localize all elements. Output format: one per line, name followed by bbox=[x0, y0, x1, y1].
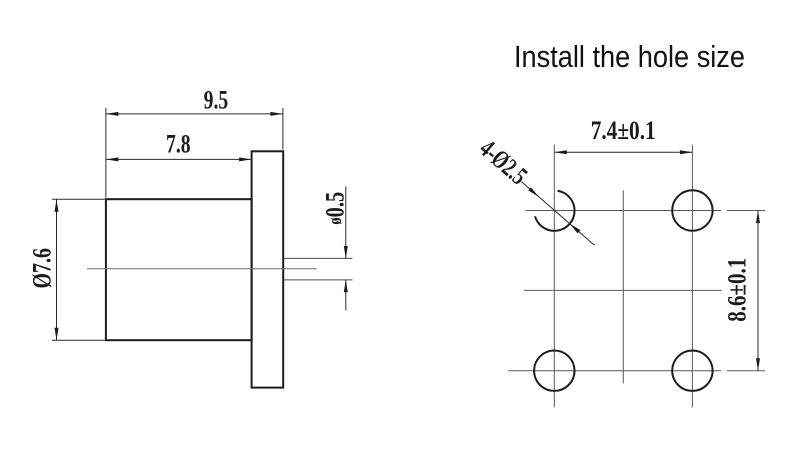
dimension 8.6 line bbox=[757, 211, 759, 371]
dimension pin diameter 0.5 lower line bbox=[345, 280, 347, 311]
top row center line end segment bbox=[727, 210, 765, 212]
dimension 9.5 left arrow bbox=[106, 112, 119, 116]
leader arrow at near hole edge bbox=[528, 187, 539, 197]
dimension 7.4 left arrow bbox=[554, 150, 567, 154]
connector flange outline bbox=[252, 151, 284, 387]
dimension pin diameter 0.5 lower arrow bbox=[344, 280, 348, 293]
dimension 7.4 right arrow bbox=[680, 150, 693, 154]
extension line left (for 9.5 and 7.8) bbox=[105, 108, 107, 198]
dimension pin diameter 0.5 upper line bbox=[345, 186, 347, 258]
leader line for 4-diameter 2.5 bbox=[522, 182, 595, 246]
svg-text:7.8: 7.8 bbox=[166, 129, 191, 158]
hole top-left (arc with gap for leader) bbox=[535, 191, 575, 231]
svg-text:8.6±0.1: 8.6±0.1 bbox=[723, 258, 752, 322]
dimension 8.6 bottom arrow bbox=[756, 358, 760, 371]
svg-text:Install the hole size: Install the hole size bbox=[514, 39, 745, 74]
bottom row center line bbox=[508, 370, 721, 372]
dimension 8.6 top arrow bbox=[756, 211, 760, 224]
svg-text:7.4±0.1: 7.4±0.1 bbox=[591, 116, 656, 145]
dimension 9.5 line bbox=[106, 113, 283, 115]
extension line bottom (for diameter 7.6) bbox=[52, 339, 105, 341]
right column center line bbox=[691, 145, 693, 408]
hole bottom-left bbox=[534, 351, 574, 391]
extension line right (for 9.5) bbox=[282, 108, 284, 150]
left column center line bbox=[553, 145, 555, 408]
svg-text:Ø7.6: Ø7.6 bbox=[28, 248, 57, 289]
dimension diameter 7.6 line bbox=[56, 199, 58, 340]
bottom row center line end segment bbox=[727, 370, 765, 372]
center pin bottom edge bbox=[284, 279, 353, 281]
extension line top (for diameter 7.6) bbox=[52, 198, 105, 200]
svg-text:9.5: 9.5 bbox=[204, 86, 229, 115]
hole top-right bbox=[672, 190, 712, 230]
hole bottom-right bbox=[672, 351, 712, 391]
leader arrow at far hole edge bbox=[570, 224, 581, 234]
dimension pin diameter 0.5 upper arrow bbox=[344, 246, 348, 259]
top row center line bbox=[526, 210, 722, 212]
dimension 7.8 left arrow bbox=[106, 157, 119, 161]
dimension 7.8 right arrow bbox=[239, 157, 252, 161]
center pin top edge bbox=[284, 257, 353, 259]
middle horizontal center line bbox=[524, 289, 722, 291]
dimension 7.4 line bbox=[554, 151, 692, 153]
center line (left view axis) bbox=[87, 268, 317, 270]
connector body outline bbox=[106, 199, 252, 340]
dimension diameter 7.6 top arrow bbox=[55, 199, 59, 212]
dimension diameter 7.6 bottom arrow bbox=[55, 328, 59, 341]
dimension 7.8 line bbox=[106, 158, 252, 160]
middle vertical center line bbox=[622, 191, 624, 384]
svg-text:ø0.5: ø0.5 bbox=[321, 192, 350, 225]
dimension 9.5 right arrow bbox=[270, 112, 283, 116]
